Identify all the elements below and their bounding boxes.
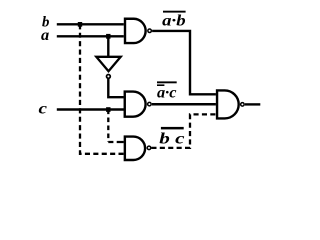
node c junction: [106, 107, 110, 112]
svg-text:c: c: [39, 100, 48, 117]
wire dashed from node c down to NAND U3 upper input: [107, 110, 109, 143]
wire a horizontal: [57, 35, 124, 37]
label overline(b c): [159, 127, 184, 147]
NAND U1 (top, inputs b,a): [125, 19, 151, 43]
svg-text:a: a: [41, 27, 49, 44]
NAND U3 (bottom, inputs b,c dashed): [125, 137, 151, 160]
wire dashed U3 output to U4 bottom input: [151, 114, 216, 147]
NAND U2 (middle, inputs abar,c): [125, 92, 151, 117]
wire dashed from node b down to NAND U3 lower input: [80, 24, 124, 154]
node a junction: [106, 34, 110, 39]
inverter U5 (NOT gate pointing down): [96, 57, 120, 79]
svg-text:b c: b c: [159, 130, 184, 147]
svg-text:a·c: a·c: [157, 84, 177, 101]
wire a junction to inverter input: [107, 36, 109, 56]
wire inverter output to NAND U2 upper input: [108, 79, 123, 97]
label overline(abar·c): [157, 81, 177, 101]
wire c horizontal: [57, 108, 124, 110]
wire U2 output to U4 middle input: [152, 103, 216, 105]
label overline(a·b): [162, 11, 185, 30]
node b junction: [78, 22, 82, 27]
NAND U4 (output gate, 3 inputs): [217, 90, 244, 118]
wire U1 output to U4 top input: [152, 31, 216, 94]
svg-text:a·b: a·b: [162, 12, 185, 29]
wire b horizontal: [57, 23, 124, 25]
wire U4 output: [245, 103, 260, 105]
